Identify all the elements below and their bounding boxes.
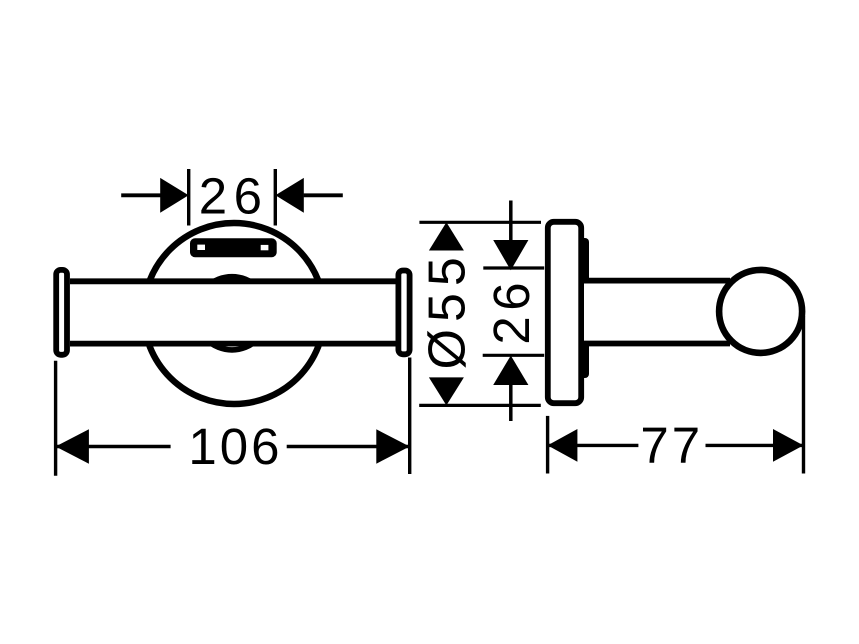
svg-text:26: 26 (483, 277, 540, 345)
svg-text:77: 77 (640, 417, 703, 474)
svg-text:106: 106 (188, 418, 282, 475)
svg-text:26: 26 (199, 168, 269, 225)
svg-text:Ø55: Ø55 (418, 250, 476, 369)
